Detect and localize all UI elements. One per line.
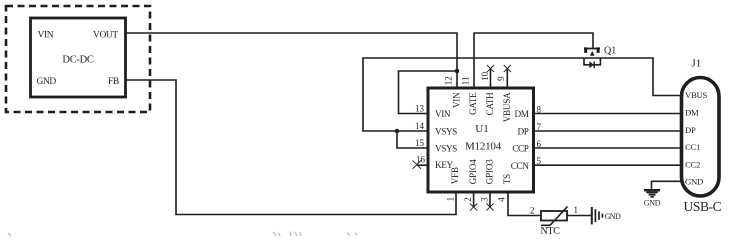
svg-text:11: 11 bbox=[461, 77, 471, 86]
Q1 channel wire bbox=[584, 57, 601, 59]
svg-text:GND: GND bbox=[644, 199, 661, 208]
connector J1 body (USB-C) bbox=[682, 78, 720, 197]
svg-text:12: 12 bbox=[444, 76, 454, 85]
IC U1 body bbox=[428, 88, 534, 192]
svg-text:2: 2 bbox=[530, 206, 535, 216]
Q1 left contact bar bbox=[584, 47, 587, 53]
svg-text:1: 1 bbox=[445, 197, 455, 202]
wire U1 pin 7 to J1 DP bbox=[534, 130, 682, 132]
no-connect X on VBUSA bbox=[504, 65, 511, 72]
svg-text:2: 2 bbox=[463, 197, 473, 202]
svg-text:FB: FB bbox=[108, 77, 119, 87]
svg-text:J1: J1 bbox=[692, 58, 702, 70]
svg-text:10: 10 bbox=[480, 71, 490, 81]
svg-text:TS: TS bbox=[502, 174, 512, 184]
svg-text:GATE: GATE bbox=[468, 92, 478, 115]
svg-text:VIN: VIN bbox=[38, 30, 54, 40]
junction dot VSYS pins 14/15 bbox=[395, 129, 400, 134]
svg-text:CC2: CC2 bbox=[685, 159, 700, 169]
wire U1 pin 16 KEY stub bbox=[417, 164, 428, 166]
cropped caption fragments at bottom bbox=[8, 232, 357, 237]
svg-text:U1: U1 bbox=[475, 123, 488, 135]
svg-text:16: 16 bbox=[416, 155, 426, 165]
svg-text:1: 1 bbox=[574, 205, 579, 215]
svg-text:Q1: Q1 bbox=[604, 46, 616, 57]
svg-text:DC-DC: DC-DC bbox=[62, 55, 93, 66]
pin 2 GPIO4 no-connect stub bbox=[473, 192, 475, 207]
ground symbol (NTC, rotated) bbox=[592, 207, 603, 224]
wire NTC pin 1 to ground bbox=[567, 215, 592, 217]
svg-text:CATH: CATH bbox=[485, 92, 495, 116]
svg-text:CC1: CC1 bbox=[685, 142, 700, 152]
svg-text:VSYS: VSYS bbox=[435, 143, 457, 153]
svg-text:GND: GND bbox=[37, 77, 57, 87]
no-connect X on GPIO3 bbox=[486, 203, 493, 210]
svg-text:CCN: CCN bbox=[511, 161, 529, 171]
svg-text:13: 13 bbox=[415, 104, 425, 114]
wire J1 GND to ground bbox=[652, 181, 682, 189]
Q1 right contact bar bbox=[597, 47, 600, 53]
svg-text:VBUS: VBUS bbox=[685, 90, 707, 100]
svg-text:4: 4 bbox=[497, 197, 507, 202]
pin 9 VBUSA no-connect stub bbox=[506, 69, 508, 89]
ground symbol (USB-C GND) bbox=[644, 190, 660, 197]
svg-text:GPIO4: GPIO4 bbox=[468, 159, 478, 184]
svg-text:M12104: M12104 bbox=[465, 141, 502, 153]
pin 10 CATH no-connect stub bbox=[490, 69, 492, 89]
svg-text:VIN: VIN bbox=[451, 92, 461, 108]
svg-text:GPIO3: GPIO3 bbox=[484, 159, 494, 184]
svg-text:VOUT: VOUT bbox=[93, 30, 118, 40]
wire VSYS net to Q1 source bbox=[363, 58, 584, 131]
thermistor NTC body bbox=[541, 211, 567, 221]
no-connect X on GPIO4 bbox=[470, 203, 477, 210]
svg-text:DM: DM bbox=[685, 108, 699, 118]
Q1 body-diode loop bbox=[584, 58, 600, 65]
svg-text:NTC: NTC bbox=[541, 226, 561, 237]
svg-text:15: 15 bbox=[415, 138, 425, 148]
wire U1 pin 13 loop to VOUT net bbox=[399, 71, 458, 114]
thermistor diagonal stroke bbox=[541, 207, 568, 226]
DC-DC converter block bbox=[31, 18, 126, 97]
svg-text:VFB: VFB bbox=[450, 167, 460, 184]
wire U1 pin 5 to J1 CC2 bbox=[534, 164, 682, 166]
Q1 diode cathode bar bbox=[593, 61, 595, 68]
junction dot VOUT/pin13 node bbox=[455, 69, 460, 74]
wire U1 pin 6 to J1 CC1 bbox=[534, 147, 682, 149]
no-connect X on KEY bbox=[413, 160, 421, 168]
svg-text:3: 3 bbox=[480, 197, 490, 202]
svg-text:CCP: CCP bbox=[512, 144, 528, 154]
svg-text:DP: DP bbox=[685, 125, 696, 135]
wire Q1 drain to J1 VBUS bbox=[600, 58, 681, 96]
svg-text:DM: DM bbox=[514, 109, 528, 119]
Q1 substrate arrow bbox=[590, 51, 595, 56]
pin 3 GPIO3 no-connect stub bbox=[489, 192, 491, 207]
wire U1 pin 8 to J1 DM bbox=[534, 113, 682, 115]
wire U1 pin 4 TS to NTC bbox=[508, 192, 541, 216]
Q1 body diode bbox=[589, 61, 594, 68]
DC-DC module dashed enclosure bbox=[6, 6, 150, 112]
svg-text:VBUSA: VBUSA bbox=[502, 92, 512, 122]
svg-text:GND: GND bbox=[685, 177, 703, 187]
svg-text:GND: GND bbox=[605, 212, 621, 221]
svg-text:14: 14 bbox=[415, 121, 425, 131]
transistor Q1 gate bar bbox=[584, 48, 600, 50]
svg-text:USB-C: USB-C bbox=[684, 199, 722, 214]
wire GATE pin 11 to Q1 gate bbox=[474, 33, 593, 88]
wire FB to U1 pin 1 (VFB) bbox=[126, 80, 456, 215]
wire U1 pin 15 branch bbox=[397, 131, 428, 148]
svg-text:VIN: VIN bbox=[435, 109, 451, 119]
svg-text:VSYS: VSYS bbox=[435, 126, 457, 136]
wire VOUT to U1 pin 12 bbox=[126, 33, 457, 88]
svg-text:9: 9 bbox=[496, 76, 506, 81]
svg-text:DP: DP bbox=[518, 127, 529, 137]
no-connect X on CATH bbox=[487, 65, 494, 72]
